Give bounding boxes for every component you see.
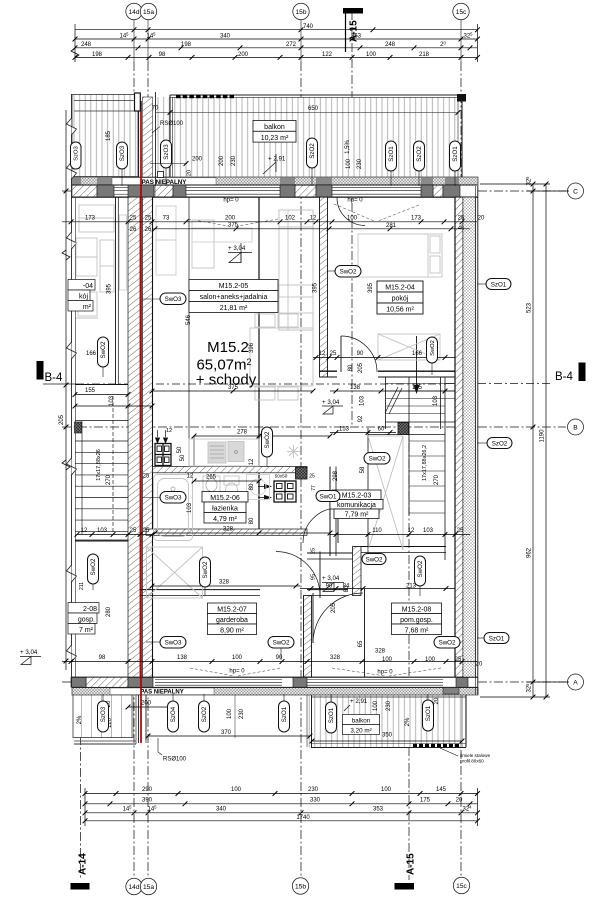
wall 12 arrows kitchen (155, 438, 160, 445)
section line A-15 bottom (408, 427, 410, 880)
room label M15.2-08 (392, 603, 442, 635)
left building staircase (75, 396, 128, 540)
interior dim line y228 (152, 228, 470, 230)
svg-text:hp= 0: hp= 0 (377, 670, 393, 676)
svg-text:RSØ100: RSØ100 (160, 121, 184, 127)
svg-text:80: 80 (348, 364, 354, 371)
svg-text:-04: -04 (83, 283, 93, 290)
dim 265 line (194, 480, 259, 482)
dim 650 already; dim 370 terrace (148, 735, 310, 737)
svg-text:SwO2: SwO2 (430, 340, 436, 356)
svg-text:SwO2: SwO2 (340, 269, 357, 276)
svg-text:salon+aneks+jadalnia: salon+aneks+jadalnia (200, 294, 268, 301)
top dim line 740 (75, 29, 478, 31)
corridor wall horizontal (307, 552, 354, 554)
break zigzags on left facade (67, 118, 77, 662)
dresser bedroom (378, 334, 440, 360)
svg-text:370: 370 (221, 730, 232, 736)
bedroom bottom wall (320, 370, 338, 372)
window/door tag ovals vertical bottom (98, 700, 434, 733)
dim 153/60 line (330, 432, 396, 434)
svg-text:90: 90 (276, 655, 283, 661)
svg-text:230: 230 (308, 787, 319, 793)
svg-text:200: 200 (219, 155, 225, 166)
grid bubble 15c top (453, 3, 469, 19)
svg-text:hp= 0: hp= 0 (223, 198, 239, 204)
svg-text:95: 95 (311, 574, 317, 580)
svg-text:103: 103 (109, 395, 115, 406)
svg-text:15a: 15a (143, 9, 154, 16)
window left building top (114, 187, 128, 194)
railing posts top (176, 95, 234, 98)
svg-text:395: 395 (313, 282, 319, 293)
svg-text:100: 100 (382, 657, 393, 663)
kitchen counter (189, 439, 259, 466)
svg-text:218: 218 (419, 52, 430, 58)
horizontal ovals (160, 266, 512, 649)
garderoba top wall (140, 589, 260, 591)
grid axis 15a vertical (147, 20, 149, 62)
svg-text:26: 26 (130, 227, 137, 233)
stair treads lower flight (409, 441, 445, 513)
concrete columns top wall (97, 185, 114, 197)
svg-text:110: 110 (372, 528, 382, 534)
svg-text:SwO2: SwO2 (417, 560, 424, 577)
shaft dark landing (398, 423, 409, 435)
svg-text:SwO3: SwO3 (165, 640, 182, 647)
svg-text:211: 211 (79, 582, 85, 590)
room label left -04 partial (68, 280, 95, 312)
svg-text:1190: 1190 (540, 429, 546, 443)
grid axis C horizontal (62, 190, 566, 192)
bottom terrace area (145, 695, 147, 741)
level markers (20, 154, 368, 711)
svg-text:B-4: B-4 (555, 371, 574, 383)
svg-text:395: 395 (107, 283, 113, 294)
svg-text:SzO1: SzO1 (328, 707, 335, 723)
svg-text:100: 100 (425, 657, 436, 663)
top dim line row2 (75, 38, 478, 40)
svg-text:103: 103 (97, 528, 108, 534)
corner post block (457, 94, 466, 102)
svg-text:100: 100 (366, 52, 377, 58)
svg-text:25: 25 (311, 548, 317, 554)
svg-text:58: 58 (360, 466, 366, 473)
left building dims (75, 394, 128, 396)
kitchen-bath wall (153, 467, 308, 473)
svg-text:523: 523 (527, 302, 533, 313)
svg-text:A-14: A-14 (78, 853, 89, 875)
fridge (208, 442, 226, 463)
svg-text:kój: kój (79, 294, 88, 301)
svg-text:4,79 m²: 4,79 m² (213, 516, 237, 523)
svg-text:1740: 1740 (296, 815, 310, 821)
svg-text:garderoba: garderoba (216, 617, 248, 624)
svg-text:200: 200 (141, 701, 152, 707)
dim line bottom y661 (62, 661, 477, 663)
svg-text:10,56 m²: 10,56 m² (386, 307, 414, 314)
svg-text:SzO3: SzO3 (74, 146, 80, 161)
leaders horizontal ovals (93, 271, 487, 660)
bottom dim lines (85, 793, 478, 795)
svg-text:328: 328 (375, 649, 386, 655)
svg-text:395: 395 (368, 282, 374, 293)
svg-text:10,23 m²: 10,23 m² (261, 135, 289, 142)
svg-text:M15.2-07: M15.2-07 (217, 607, 247, 614)
svg-text:138: 138 (350, 385, 361, 391)
svg-text:m²: m² (83, 304, 92, 311)
svg-text:200: 200 (192, 157, 203, 163)
svg-text:M15.2-06: M15.2-06 (210, 495, 240, 502)
svg-text:200: 200 (238, 52, 249, 58)
hp labels (223, 198, 393, 676)
svg-text:272: 272 (286, 42, 297, 48)
svg-text:SzO1: SzO1 (425, 705, 432, 721)
svg-text:SwO2: SwO2 (439, 640, 456, 647)
svg-text:2-08: 2-08 (83, 606, 97, 613)
svg-text:80: 80 (249, 517, 255, 524)
svg-text:SzO1: SzO1 (388, 146, 395, 162)
svg-text:396: 396 (249, 342, 255, 353)
svg-text:100: 100 (227, 708, 233, 719)
svg-text:SzO3: SzO3 (100, 706, 107, 722)
svg-text:hp= 0: hp= 0 (229, 669, 245, 675)
dim 328 bath line (155, 532, 330, 534)
svg-text:20: 20 (456, 797, 463, 803)
svg-text:M15.2-03: M15.2-03 (342, 493, 372, 500)
svg-text:328: 328 (219, 580, 230, 586)
svg-text:15b: 15b (295, 9, 306, 16)
room label M15.2-03 (330, 490, 383, 519)
svg-text:SzO2: SzO2 (309, 143, 316, 159)
svg-text:166: 166 (412, 351, 423, 357)
salon right wall line (258, 197, 260, 535)
grid bubble 14d bottom (126, 878, 142, 894)
svg-text:SwO3: SwO3 (165, 296, 182, 303)
hatched wall segments top (72, 185, 97, 197)
svg-text:298: 298 (333, 470, 339, 481)
svg-text:353: 353 (351, 33, 362, 39)
svg-text:103: 103 (187, 502, 193, 513)
left margin vertical dim (65, 110, 67, 670)
svg-text:198: 198 (181, 42, 192, 48)
window salon top (186, 187, 280, 194)
grid bubble B right (568, 419, 584, 435)
apartment title (196, 339, 257, 389)
svg-text:100: 100 (232, 655, 243, 661)
svg-text:SzO1: SzO1 (281, 706, 288, 722)
svg-text:90: 90 (357, 351, 364, 357)
svg-text:25: 25 (458, 215, 465, 221)
svg-text:SzO2: SzO2 (492, 441, 508, 448)
svg-text:248: 248 (385, 42, 396, 48)
svg-text:340: 340 (216, 806, 227, 812)
left building furniture upper (79, 205, 114, 232)
svg-text:komunikacja: komunikacja (337, 502, 376, 509)
balcony door arc bedroom (337, 198, 365, 226)
svg-text:200: 200 (225, 215, 236, 221)
svg-text:70: 70 (152, 106, 159, 112)
wardrobe garderoba (147, 547, 203, 598)
wall komunikacja left (329, 467, 331, 557)
svg-text:+ 3,04: + 3,04 (322, 399, 340, 406)
shaft dark bath (296, 467, 308, 479)
svg-text:213: 213 (406, 584, 417, 590)
svg-text:73: 73 (163, 215, 170, 221)
section marker B-4 left (37, 361, 44, 380)
leader lines top ovals (122, 168, 455, 186)
svg-text:92: 92 (358, 415, 364, 422)
svg-text:46: 46 (458, 226, 464, 232)
bottom balcony (307, 695, 466, 748)
grid bubble 15a top (140, 3, 156, 19)
svg-text:SzO4: SzO4 (170, 706, 177, 722)
dim line garderoba y586 (152, 585, 300, 587)
svg-text:390: 390 (142, 797, 153, 803)
dim line y534 komunik (330, 534, 470, 536)
svg-text:290: 290 (142, 787, 153, 793)
svg-text:145: 145 (436, 787, 447, 793)
wall between garderoba and pom.gosp (304, 596, 312, 677)
dimension numbers (81, 24, 485, 821)
stair treads upper flight (386, 384, 456, 414)
svg-text:balkon: balkon (264, 124, 285, 131)
left building column (75, 422, 82, 433)
svg-text:205: 205 (331, 602, 337, 613)
svg-text:100: 100 (346, 158, 352, 169)
svg-text:SwO3: SwO3 (165, 495, 182, 502)
svg-text:15b: 15b (295, 883, 306, 890)
svg-text:15c: 15c (456, 883, 467, 890)
svg-text:17x17,88x26,2: 17x17,88x26,2 (422, 445, 428, 481)
svg-text:65: 65 (358, 640, 364, 647)
grid bubble A right (568, 674, 584, 690)
svg-text:SwO2: SwO2 (264, 431, 271, 448)
svg-text:12: 12 (310, 215, 317, 221)
svg-text:270: 270 (106, 474, 112, 485)
rotated dimension numbers (59, 130, 546, 728)
grid bubble C right (568, 183, 584, 199)
svg-text:98: 98 (159, 52, 166, 58)
balcony divider wall top (143, 97, 153, 177)
bedroom door arc (341, 336, 377, 372)
svg-text:pokój: pokój (392, 296, 409, 303)
left building balcony bottom (73, 695, 133, 738)
sink (228, 442, 244, 462)
svg-text:173: 173 (85, 215, 96, 221)
tick marks (64, 27, 549, 823)
svg-text:2%: 2% (77, 715, 83, 724)
ventilation shaft waffle kitchen (155, 444, 171, 466)
svg-text:gosp.: gosp. (78, 617, 95, 624)
top dim line row3 (75, 47, 478, 49)
svg-text:740: 740 (303, 24, 314, 30)
svg-text:230: 230 (239, 708, 245, 719)
room label M15.2-06 (202, 492, 248, 524)
svg-text:155: 155 (85, 388, 96, 394)
balcony divider wall bottom (138, 695, 140, 744)
svg-text:80: 80 (249, 483, 255, 490)
svg-text:60: 60 (378, 427, 385, 433)
svg-text:165: 165 (412, 385, 423, 391)
svg-text:+ schody: + schody (196, 372, 257, 389)
right vertical dim lines (532, 184, 534, 697)
grid axis 15c vertical (460, 20, 462, 62)
washer (247, 475, 270, 500)
salon 375 dim y391 (152, 390, 313, 392)
svg-text:25: 25 (145, 215, 152, 221)
svg-text:12: 12 (81, 528, 88, 534)
svg-text:SzO1: SzO1 (489, 636, 505, 643)
svg-text:17x17,88x26: 17x17,88x26 (96, 449, 102, 481)
salon left counter edge line (188, 197, 190, 466)
svg-text:7 m²: 7 m² (79, 627, 94, 634)
bedroom left wall hatched (320, 197, 328, 377)
room label balkon bottom (343, 715, 380, 735)
svg-text:25: 25 (455, 657, 462, 663)
ventilation shaft waffle bath (274, 481, 296, 502)
svg-text:15c: 15c (456, 9, 467, 16)
svg-text:profil 80x60: profil 80x60 (460, 759, 484, 764)
svg-text:20: 20 (187, 170, 193, 176)
balcony dim line 650 (156, 112, 458, 114)
svg-text:14d: 14d (128, 884, 139, 891)
svg-text:138: 138 (177, 655, 188, 661)
svg-text:100: 100 (347, 215, 358, 221)
svg-text:25: 25 (309, 474, 315, 480)
svg-text:20: 20 (476, 662, 483, 668)
room label M15.2-05 (189, 280, 278, 313)
svg-text:166: 166 (86, 351, 97, 357)
svg-text:12: 12 (319, 351, 326, 357)
svg-text:21,81 m²: 21,81 m² (220, 305, 248, 312)
svg-text:A-15: A-15 (406, 853, 417, 875)
svg-text:100: 100 (231, 787, 242, 793)
svg-text:M15.2-08: M15.2-08 (402, 607, 432, 614)
svg-text:C: C (573, 188, 578, 195)
grid axis A horizontal (62, 681, 566, 683)
svg-text:50: 50 (177, 446, 183, 453)
grid axis 15b vertical (300, 20, 302, 62)
staircase (368, 377, 455, 560)
svg-text:12: 12 (187, 474, 194, 480)
bathroom door arc (303, 508, 338, 543)
svg-text:SwO2: SwO2 (366, 557, 383, 564)
svg-text:205: 205 (358, 362, 364, 373)
dim line y391 komunik (330, 390, 455, 392)
svg-text:281: 281 (386, 223, 397, 229)
svg-text:25: 25 (143, 474, 150, 480)
pom.gosp door arc (313, 593, 363, 643)
room label M15.2-04 (377, 281, 423, 314)
window pom.gosp bottom (307, 680, 443, 686)
right exterior wall (455, 197, 463, 677)
svg-text:265: 265 (206, 475, 217, 481)
top dim line row4 (75, 56, 478, 58)
section marker A-15 bottom flag (395, 883, 415, 890)
svg-text:230: 230 (386, 700, 392, 711)
svg-text:278: 278 (237, 430, 248, 436)
svg-text:łazienka: łazienka (212, 506, 238, 513)
svg-text:353: 353 (373, 806, 384, 812)
svg-text:SzO3: SzO3 (163, 144, 170, 160)
section marker A-15 top flag (343, 8, 363, 14)
svg-text:PAS NIEPALNY: PAS NIEPALNY (140, 690, 183, 696)
window opening dashes salon (188, 204, 419, 227)
bath bottom wall (146, 529, 307, 535)
grid bubble 15c bottom (453, 877, 469, 893)
svg-text:SwO2: SwO2 (100, 341, 107, 358)
svg-text:350: 350 (382, 733, 393, 739)
section line A-15 top (351, 11, 353, 427)
svg-text:280: 280 (106, 606, 112, 617)
left wall inner face (152, 197, 154, 677)
svg-text:230: 230 (231, 155, 237, 166)
washbasin (203, 476, 220, 494)
stair void X (368, 436, 403, 550)
bed bedroom (358, 234, 442, 277)
svg-text:M15.2-05: M15.2-05 (219, 283, 249, 290)
svg-text:98: 98 (99, 655, 106, 661)
railing posts bottom (413, 744, 461, 747)
svg-text:340: 340 (220, 33, 231, 39)
svg-text:+ 2,91: + 2,91 (350, 698, 368, 705)
svg-text:SwO2: SwO2 (202, 561, 209, 578)
window garderoba bottom (155, 680, 282, 686)
svg-text:2%: 2% (405, 717, 411, 726)
apartment left wall hatched (143, 197, 153, 677)
garderoba door arc (276, 552, 320, 596)
svg-text:230: 230 (357, 158, 363, 169)
dim 350 bottom balcony (312, 740, 462, 742)
party wall left building side (128, 197, 140, 677)
section line A-14 bottom (80, 688, 82, 880)
svg-text:50: 50 (180, 454, 186, 461)
svg-text:328: 328 (223, 527, 234, 533)
svg-text:14d: 14d (128, 9, 139, 16)
svg-text:102: 102 (285, 215, 296, 221)
balcony top edge double line (170, 94, 462, 96)
svg-text:SzO2: SzO2 (416, 146, 423, 162)
svg-text:A: A (573, 679, 578, 686)
balcony right edge (457, 95, 459, 177)
pas niepalny strip top (72, 177, 478, 186)
svg-text:SzO1: SzO1 (452, 146, 459, 162)
svg-text:SwO1: SwO1 (320, 494, 337, 501)
top exterior wall band (72, 185, 478, 197)
svg-text:7,68 m²: 7,68 m² (405, 628, 429, 635)
svg-text:25: 25 (143, 528, 150, 534)
svg-text:8,90 m²: 8,90 m² (220, 628, 244, 635)
svg-text:650: 650 (308, 106, 319, 112)
dilatation red line (140, 101, 142, 743)
witness ticks left (74, 24, 76, 62)
svg-text:20: 20 (478, 215, 485, 221)
svg-text:balkon: balkon (352, 718, 371, 725)
balcony left edge (169, 95, 171, 177)
svg-text:330: 330 (310, 797, 321, 803)
svg-text:173: 173 (411, 215, 422, 221)
stair direction arrow (416, 336, 418, 386)
window opening dashes bottom (190, 668, 441, 676)
sofa salon (279, 210, 313, 330)
svg-text:205: 205 (59, 414, 65, 425)
svg-text:198: 198 (92, 52, 103, 58)
svg-text:hp= 0: hp= 0 (347, 198, 363, 204)
room label balkon top (253, 121, 296, 143)
window bedroom top (332, 187, 421, 194)
svg-text:SwO2: SwO2 (90, 558, 97, 575)
